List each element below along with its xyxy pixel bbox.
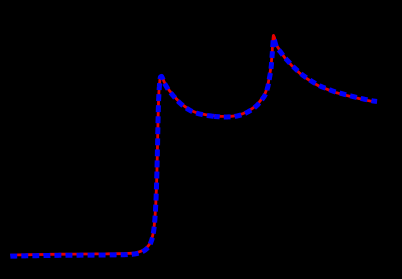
red solid curve bbox=[10, 35, 377, 255]
blue dashed curve (left segment incl. first resonance peak) bbox=[10, 76, 214, 256]
blue dashed curve (right segment incl. second resonance peak) bbox=[214, 38, 377, 117]
